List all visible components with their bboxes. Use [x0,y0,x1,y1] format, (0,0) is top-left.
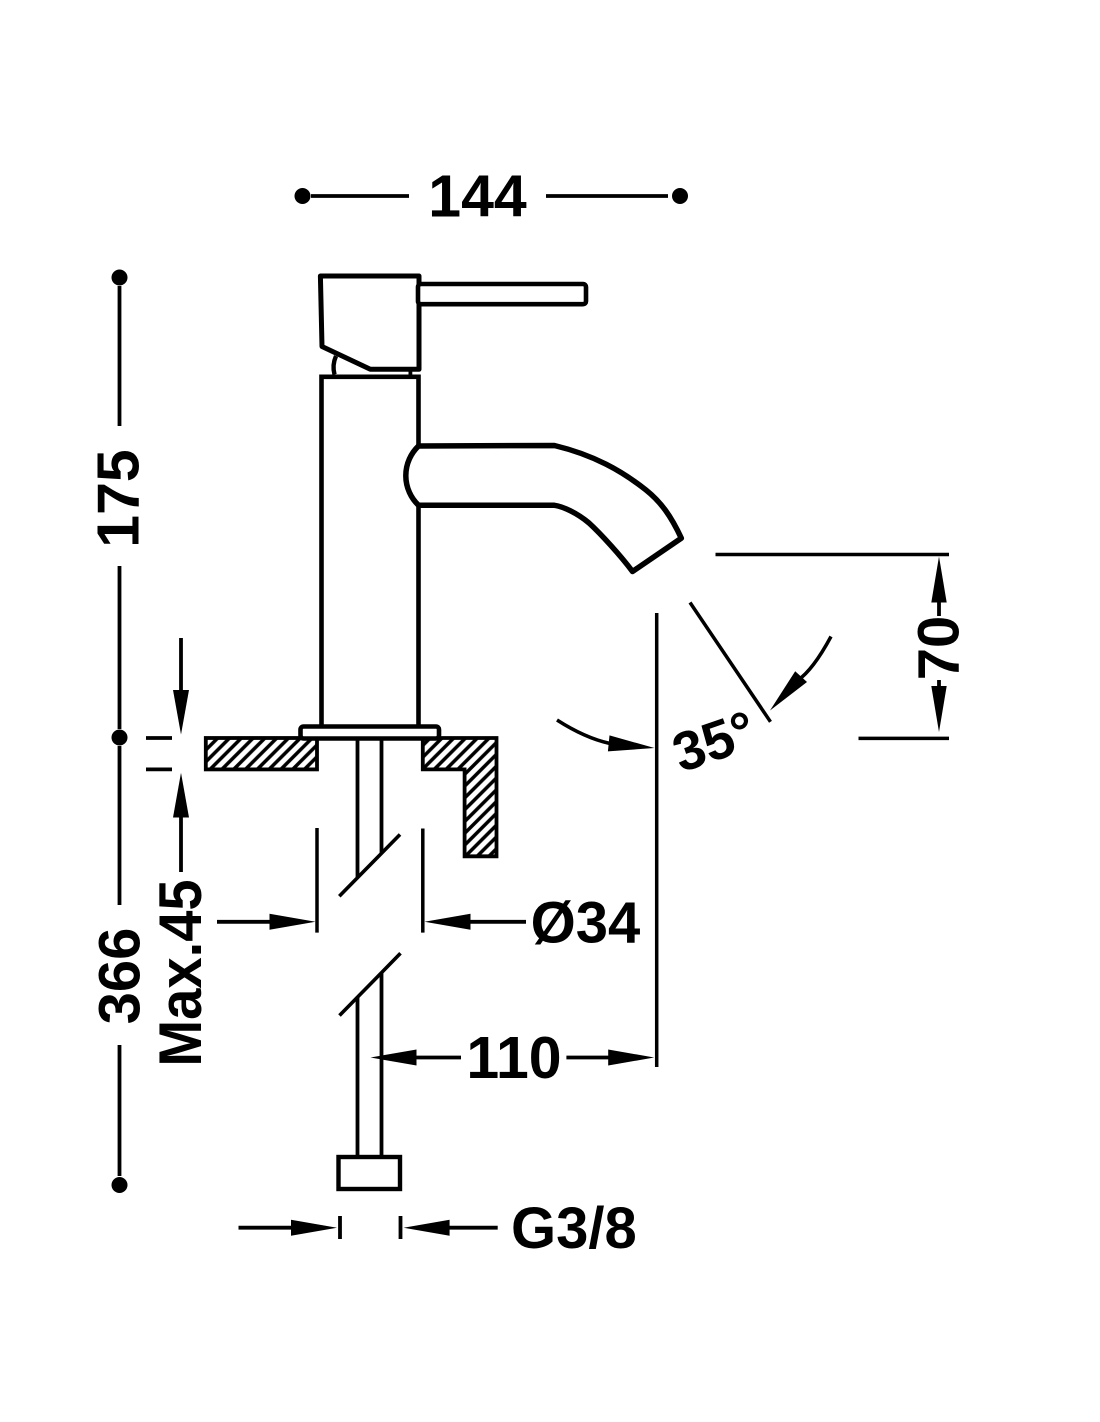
dim G3/8 [239,1196,637,1261]
base flange [301,727,440,739]
dim 110 [371,1025,655,1091]
svg-text:175: 175 [86,449,152,547]
svg-text:G3/8: G3/8 [511,1196,637,1261]
threaded rod lower segment [358,973,382,1157]
dim 366 [88,746,153,1193]
svg-text:366: 366 [88,928,153,1025]
dim 70 [716,555,972,739]
supply nut [339,1157,401,1189]
countertop left slab (hatched section) [206,738,317,769]
faucet body column [322,377,419,727]
dim 175 [86,270,152,746]
countertop right L-shaped slab (hatched section) [423,738,497,856]
threaded rod upper segment [358,740,382,878]
dim 144 [295,164,689,230]
svg-text:110: 110 [466,1025,561,1091]
35 degree annotation [557,603,831,1068]
svg-text:144: 144 [428,164,527,230]
dim Max.45 [146,638,214,1067]
upper break line [339,835,400,897]
svg-text:Max.45: Max.45 [147,879,214,1066]
handle pivot arc [334,356,336,375]
handle cartridge body [320,276,419,369]
svg-text:70: 70 [907,616,972,681]
handle lever [418,284,586,304]
handle base tick [408,369,412,376]
dim O34 [217,828,640,955]
svg-text:Ø34: Ø34 [531,890,641,955]
lower break line [340,953,401,1015]
spout [406,446,681,572]
